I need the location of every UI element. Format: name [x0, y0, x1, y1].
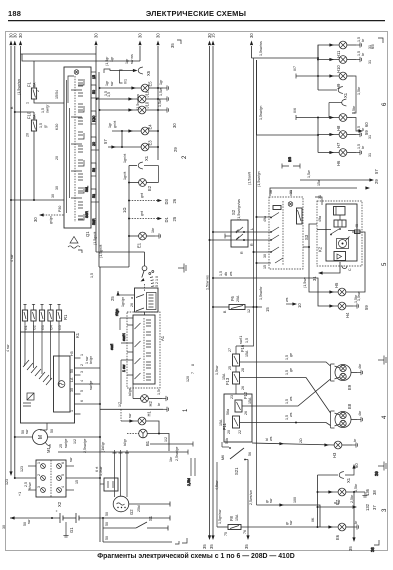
svg-text:B1: B1 [145, 440, 150, 446]
svg-text:sw: sw [25, 429, 29, 434]
svg-text:E1: E1 [137, 242, 142, 248]
switch S21 [221, 438, 252, 475]
svg-text:5: 5 [80, 390, 84, 392]
wire F10 feed from rail B [10, 106, 34, 113]
wire H9 to X7 link [352, 76, 361, 113]
wire row y=518 right section [102, 512, 170, 521]
svg-text:H7: H7 [336, 142, 341, 148]
glow control unit K1 [21, 332, 81, 423]
svg-text:22: 22 [238, 430, 242, 434]
svg-text:gr/gn: gr/gn [49, 216, 53, 224]
svg-text:76: 76 [243, 530, 247, 534]
ground mark fragment 2 [178, 264, 186, 273]
svg-text:L: L [250, 228, 254, 230]
svg-text:(1bl/gr: (1bl/gr [101, 441, 105, 452]
fuse F16 15A [228, 344, 249, 372]
junction hooks above K2 [282, 157, 300, 169]
wire 30 feed to K1 (vertical x=20.5) [17, 33, 23, 332]
svg-text:K30: K30 [55, 124, 59, 130]
turn signal switch S3 [263, 190, 309, 269]
svg-text:29: 29 [374, 179, 379, 184]
ground mark fragment 4 [378, 356, 386, 365]
connector stubs x=191/195 [187, 458, 195, 486]
svg-text:5: 5 [61, 474, 65, 476]
svg-text:ge: ge [289, 353, 293, 357]
svg-text:26: 26 [172, 198, 177, 203]
svg-text:F1: F1 [27, 81, 32, 87]
ignition symbol under Q1 [68, 237, 82, 254]
connector X7 [329, 99, 346, 118]
wire Q2 output row [129, 502, 170, 513]
svg-text:15A: 15A [235, 514, 239, 521]
svg-text:29: 29 [173, 147, 178, 152]
fuse F10 8A [26, 111, 48, 137]
wire K1 pin rows to right [81, 368, 102, 405]
svg-text:2,5ws/sw: 2,5ws/sw [249, 490, 253, 505]
svg-text:1,5w: 1,5w [307, 170, 311, 178]
svg-text:25: 25 [110, 296, 115, 301]
wire fuse outputs L1 (F16 to E9 top) [240, 353, 331, 366]
wire K2 bottom 31 arrow [312, 262, 340, 281]
svg-text:50: 50 [105, 512, 109, 516]
svg-text:30: 30 [18, 33, 23, 38]
svg-text:E3: E3 [148, 140, 153, 146]
svg-text:E8: E8 [347, 403, 352, 409]
svg-text:30: 30 [156, 33, 161, 38]
A1 contact bars [135, 320, 152, 380]
glow indicator box [130, 284, 158, 312]
svg-text:br: br [354, 520, 358, 524]
svg-text:57: 57 [374, 169, 379, 174]
starter/glow switch S with positions [141, 266, 160, 287]
wire E4/E3 junction vertical x=122 [121, 130, 123, 148]
svg-text:8A: 8A [33, 82, 37, 87]
svg-text:123: 123 [20, 466, 24, 472]
svg-text:H1: H1 [147, 410, 152, 416]
svg-text:35: 35 [202, 544, 207, 549]
svg-text:56a: 56a [226, 409, 230, 415]
svg-text:C: C [348, 268, 352, 271]
svg-text:30: 30 [138, 33, 143, 38]
svg-text:1,5sw ws: 1,5sw ws [206, 275, 210, 290]
svg-text:4br: 4br [358, 363, 362, 369]
svg-text:sw/l: sw/l [110, 344, 114, 350]
wire K2 upper rail with arrow [300, 169, 379, 190]
svg-text:7: 7 [191, 372, 195, 374]
svg-text:57: 57 [103, 139, 108, 144]
svg-text:20: 20 [92, 142, 96, 146]
lamp H8 [293, 105, 369, 135]
svg-text:49: 49 [355, 224, 359, 228]
svg-text:D3: D3 [164, 198, 169, 204]
glow sensor box above Q2 [99, 466, 118, 491]
connector X5 [104, 54, 151, 84]
svg-text:ws: ws [289, 412, 293, 417]
svg-text:20: 20 [227, 430, 231, 434]
switch S2 [225, 199, 248, 254]
svg-text:1gr/rt: 1gr/rt [123, 172, 127, 180]
svg-text:30: 30 [13, 33, 18, 38]
svg-text:X5: X5 [146, 70, 151, 76]
wire row y=200 from rail A to Q1 [10, 194, 64, 201]
wire gr/sw row to E-bus [257, 497, 321, 527]
wire 1,5sw/li jog to fuse column [236, 307, 254, 346]
wire bus B2 (x=129) [128, 166, 130, 268]
svg-text:H5: H5 [334, 282, 339, 288]
svg-text:1,5sw: 1,5sw [215, 365, 219, 375]
ignition switch Q1 [55, 67, 97, 245]
svg-text:31: 31 [368, 60, 372, 64]
corner marks bottom right [370, 540, 383, 552]
svg-text:2,5bl: 2,5bl [187, 478, 191, 486]
svg-text:G1: G1 [69, 527, 74, 533]
svg-text:2,5sw/ge: 2,5sw/ge [83, 439, 87, 453]
svg-text:S1: S1 [148, 515, 153, 521]
svg-text:G1: G1 [24, 325, 28, 330]
connector X1 (fragment 3) [318, 463, 360, 492]
svg-text:1 sw: 1 sw [122, 364, 126, 372]
svg-text:II/7: II/7 [293, 66, 297, 71]
svg-text:3: 3 [80, 371, 84, 373]
svg-text:1: 1 [80, 354, 84, 356]
svg-text:31: 31 [368, 153, 372, 157]
starter motor M1 [14, 429, 100, 453]
svg-text:27: 27 [228, 348, 232, 352]
svg-text:ws: ws [269, 436, 273, 441]
svg-text:30: 30 [172, 123, 177, 128]
wire horizontal y=61 (F1 feed) [22, 54, 140, 61]
svg-text:J10: J10 [145, 101, 150, 108]
svg-text:M: M [38, 435, 44, 439]
svg-text:1Ω: 1Ω [122, 208, 127, 213]
connector pins above Q2 [113, 450, 130, 497]
svg-text:25: 25 [59, 444, 63, 448]
svg-text:ws: ws [285, 297, 289, 302]
svg-text:75: 75 [224, 532, 228, 536]
svg-text:1,5gn/sw: 1,5gn/sw [218, 509, 222, 524]
svg-text:H4: H4 [345, 312, 350, 318]
svg-text:120: 120 [186, 376, 190, 382]
lamp H11 [329, 37, 375, 58]
svg-text:6: 6 [61, 462, 65, 464]
svg-text:R1: R1 [63, 314, 68, 320]
svg-text:58R: 58R [92, 218, 96, 225]
svg-text:6: 6 [382, 102, 388, 106]
svg-text:2: 2 [80, 364, 84, 366]
svg-text:br/gn: br/gn [89, 356, 93, 364]
svg-text:H10: H10 [336, 65, 341, 73]
K1 right terminals [70, 351, 93, 414]
wire 49a feed [256, 216, 272, 218]
svg-text:20A: 20A [236, 295, 240, 302]
wire S3 58 terminal up to K2 top rail [270, 188, 357, 196]
svg-text:15: 15 [92, 75, 96, 79]
svg-text:R: R [240, 251, 244, 254]
wire arrow 25 left of glow box [110, 291, 134, 307]
svg-text:K1: K1 [75, 332, 80, 338]
svg-text:1,5br: 1,5br [357, 86, 361, 95]
svg-text:12: 12 [247, 309, 251, 313]
svg-text:1,5br: 1,5br [354, 294, 358, 303]
wire bus rail D (x=213 long) [209, 33, 219, 549]
svg-text:ws: ws [229, 271, 233, 276]
svg-text:4br: 4br [358, 410, 362, 416]
svg-text:br: br [361, 145, 365, 149]
lamp J10 [99, 99, 178, 128]
wire K1 bottom to M1 [40, 423, 47, 430]
svg-text:(1,5gr: (1,5gr [105, 56, 109, 66]
svg-text:4: 4 [61, 486, 65, 488]
wire vertical x=354 to 35 arrow [348, 492, 356, 551]
wire rows under B1 [58, 437, 193, 461]
svg-text:br: br [353, 438, 357, 442]
svg-text:K2: K2 [318, 246, 323, 252]
lamp E2 [123, 172, 158, 191]
svg-text:sw/ge: sw/ge [89, 381, 93, 390]
fuse F8 15A [217, 462, 318, 536]
svg-text:20: 20 [26, 133, 30, 137]
wire bus 30 rail C (x=209.5 long) [202, 33, 212, 549]
svg-text:1,5br: 1,5br [354, 483, 358, 492]
svg-text:D1: D1 [164, 216, 169, 222]
svg-text:1: 1 [37, 462, 41, 464]
lamp E3 [103, 139, 178, 152]
svg-text:X1: X1 [343, 92, 348, 98]
svg-text:J11: J11 [145, 90, 150, 97]
svg-text:35: 35 [348, 546, 353, 551]
svg-text:H3: H3 [332, 452, 337, 458]
header rule [8, 20, 385, 22]
svg-text:15/54: 15/54 [55, 90, 59, 99]
Q1 right terminal hooks [85, 72, 99, 225]
svg-text:br: br [361, 38, 365, 42]
wire bus 30 line B (left rail) [6, 33, 18, 478]
svg-text:X1: X1 [346, 477, 351, 483]
svg-text:1gn/rt: 1gn/rt [123, 154, 127, 163]
lamp E7 [318, 488, 378, 505]
svg-text:3: 3 [382, 508, 388, 512]
node D3 dashed arrow row [122, 193, 177, 213]
svg-text:(1,5sw: (1,5sw [303, 277, 307, 288]
svg-text:1,5w: 1,5w [158, 99, 162, 107]
svg-text:P30: P30 [58, 206, 62, 212]
svg-text:a: a [130, 297, 134, 299]
svg-text:gr: gr [44, 124, 48, 128]
lamp E4 [108, 121, 159, 135]
svg-text:30: 30 [33, 217, 38, 222]
instrument cluster A1 [127, 312, 165, 388]
svg-text:50: 50 [70, 369, 74, 373]
svg-text:5: 5 [382, 262, 388, 266]
svg-text:1gr: 1gr [159, 79, 163, 85]
svg-text:S2: S2 [231, 209, 236, 215]
svg-text:1,5sw/br: 1,5sw/br [259, 286, 263, 300]
svg-text:8: 8 [191, 364, 195, 366]
wire row y=542 [103, 536, 179, 544]
wire vertical x=99 from Q1 down [99, 72, 103, 267]
wire S3 49 output to K2 [303, 224, 317, 247]
svg-text:50: 50 [92, 90, 96, 94]
svg-text:(1,5sw/li: (1,5sw/li [248, 172, 252, 185]
ground at battery [63, 522, 68, 537]
svg-text:4 sw: 4 sw [10, 254, 14, 262]
svg-text:E2: E2 [147, 185, 152, 191]
Q1 contact comb bars [78, 80, 83, 219]
svg-text:30: 30 [55, 186, 59, 190]
svg-text:B: B [223, 310, 227, 313]
lamp H10 [318, 51, 365, 73]
lamp H1 [121, 360, 159, 434]
svg-text:1/2: 1/2 [164, 437, 168, 442]
svg-text:26: 26 [244, 411, 248, 415]
svg-text:db: db [224, 272, 228, 276]
svg-text:M6: M6 [221, 455, 225, 460]
svg-text:(1,5sw/gn/ws: (1,5sw/gn/ws [237, 199, 241, 220]
wire S21 output down (2,5ws/sw) [244, 460, 253, 550]
battery G1 [2, 510, 103, 533]
headlight E9 [331, 363, 363, 390]
lamp E1 [128, 227, 161, 248]
corner mark bottom middle [182, 538, 187, 543]
svg-text:ws: ws [289, 396, 293, 401]
svg-text:30: 30 [2, 525, 6, 529]
svg-text:R: R [250, 243, 254, 246]
svg-text:1,5sw/ws: 1,5sw/ws [259, 41, 263, 56]
svg-text:F8: F8 [229, 515, 234, 521]
svg-text:br: br [157, 402, 161, 406]
lamp H4 [338, 294, 369, 318]
lamp E5 [99, 56, 169, 92]
wire feed fragment 6 (x=251.5) [249, 33, 254, 58]
svg-text:sw ws: sw ws [130, 54, 134, 64]
node arrow 10 [285, 297, 302, 308]
svg-text:132: 132 [365, 503, 370, 511]
svg-text:31: 31 [368, 135, 372, 139]
node labels 7 8 120 right of A1 [186, 364, 195, 382]
svg-text:H6: H6 [336, 160, 341, 166]
svg-text:60: 60 [364, 122, 369, 127]
svg-text:3: 3 [37, 486, 41, 488]
svg-text:sw/l1: sw/l1 [239, 336, 243, 344]
wire row y=409 with ground [100, 402, 169, 412]
wire bracket x=103 [102, 518, 104, 542]
svg-text:sw/gr: sw/gr [46, 104, 50, 113]
svg-text:F10: F10 [27, 111, 32, 119]
svg-text:gn/rt: gn/rt [113, 121, 117, 128]
svg-text:10: 10 [297, 303, 302, 308]
svg-text:23: 23 [230, 395, 234, 399]
X2 side stubs [14, 457, 101, 496]
svg-text:30: 30 [249, 33, 254, 38]
wire bus 30 line A (left rail) [5, 33, 14, 485]
svg-text:rt/gn: rt/gn [115, 309, 119, 316]
svg-text:1,5: 1,5 [90, 273, 94, 278]
svg-text:25bl: 25bl [137, 505, 141, 512]
wire 15 feed to S3 [256, 262, 272, 264]
wire row 132/37 [318, 499, 378, 511]
svg-text:K30: K30 [92, 116, 96, 122]
svg-text:35: 35 [170, 43, 175, 48]
svg-text:30: 30 [263, 254, 267, 258]
flasher relay K2 [317, 195, 362, 271]
svg-text:E9: E9 [347, 384, 352, 390]
svg-text:E4: E4 [148, 124, 153, 130]
svg-text:49a: 49a [318, 216, 322, 222]
lamp J11 [96, 88, 169, 103]
wire pair 15sw/li 15sw/gn (x=253.5/256.5) [248, 58, 262, 505]
svg-text:20: 20 [55, 156, 59, 160]
lamp H2 [128, 384, 168, 407]
wire vertical x=140 with top arrow [136, 33, 143, 110]
ground mark fragment 3 top [374, 462, 386, 477]
svg-text:1gr/gn: 1gr/gn [121, 297, 125, 307]
svg-text:gnt: gnt [140, 193, 144, 198]
wire A1 feed jog at top [119, 318, 121, 330]
lamp E6 [318, 520, 359, 540]
svg-text:G5: G5 [58, 325, 62, 330]
svg-text:E5: E5 [148, 81, 153, 87]
svg-text:ge: ge [289, 368, 293, 372]
svg-text:1br: 1br [151, 227, 155, 233]
svg-text:30: 30 [94, 33, 99, 38]
wire row y=252 from x=96 to starter switch [96, 252, 145, 266]
svg-text:sw: sw [269, 498, 273, 503]
svg-text:1,5: 1,5 [41, 108, 45, 113]
svg-text:56: 56 [248, 452, 252, 456]
svg-text:+: + [55, 510, 59, 512]
wire dashed row P30 with arrow [33, 206, 64, 224]
svg-text:56b: 56b [225, 438, 229, 444]
wire lamp bus x=158 fragment 2 [156, 33, 181, 160]
wire S2 R row to S3 [209, 239, 272, 246]
K1 internal glow wire cascade [23, 332, 59, 406]
svg-text:1,5sw/gn: 1,5sw/gn [259, 106, 263, 120]
svg-text:1gr: 1gr [108, 122, 112, 128]
wire K2 49 output down to H5 [346, 232, 365, 292]
svg-text:50: 50 [105, 536, 109, 540]
svg-text:G3: G3 [41, 325, 45, 330]
wire S2 L row to S3 [212, 228, 271, 233]
gauge Q2 [113, 496, 134, 515]
svg-text:6: 6 [80, 400, 84, 402]
wire vertical x=100 (fragment 1 right bus) [95, 267, 105, 542]
wire vertical x=96 (Q1 right bus) [94, 33, 99, 252]
svg-text:50: 50 [105, 522, 109, 526]
svg-text:1: 1 [26, 102, 30, 104]
svg-text:1,5: 1,5 [39, 123, 43, 128]
svg-text:H8: H8 [336, 125, 341, 131]
horn B1 [123, 429, 173, 462]
svg-text:5 2 1 0: 5 2 1 0 [155, 276, 159, 287]
svg-text:br: br [361, 52, 365, 56]
svg-text:sw: sw [289, 520, 293, 525]
svg-text:II/5: II/5 [288, 157, 292, 162]
wire E-bus x=317.5 [311, 475, 319, 528]
svg-text:LA: LA [70, 377, 74, 382]
svg-text:15: 15 [211, 33, 216, 38]
svg-text:2Ω: 2Ω [299, 438, 303, 443]
svg-text:1,5br: 1,5br [352, 105, 356, 114]
svg-text:53: 53 [92, 194, 96, 198]
svg-text:15A: 15A [219, 419, 223, 426]
glow plug resistors G1-G5 / R1 [22, 304, 68, 332]
svg-text:31: 31 [289, 190, 293, 194]
svg-text:G4: G4 [49, 325, 53, 330]
wire bus x=318 lower / feed [257, 60, 320, 153]
svg-text:37: 37 [372, 505, 377, 510]
svg-text:1/2: 1/2 [73, 439, 77, 444]
svg-text:1gr: 1gr [105, 80, 109, 86]
